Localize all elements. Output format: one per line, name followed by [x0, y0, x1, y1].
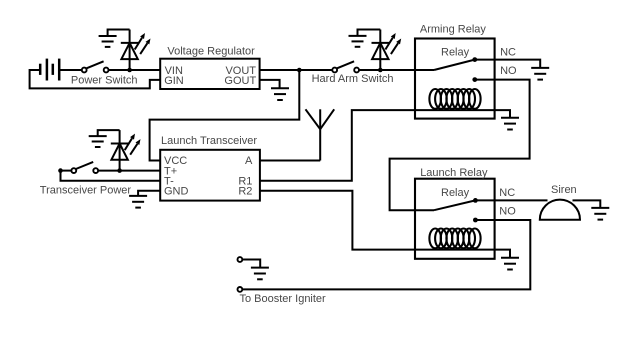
svg-text:GIN: GIN: [164, 75, 184, 87]
node arming LED junction: [378, 68, 383, 73]
wire K2 NC to siren: [475, 199, 547, 201]
svg-text:R2: R2: [238, 186, 252, 198]
svg-text:NO: NO: [500, 65, 517, 77]
antenna AN1: [306, 109, 335, 160]
LED D2 arm indicator: [372, 30, 402, 71]
ground for LED D2: [349, 36, 367, 47]
ground for K2 coil: [501, 258, 519, 270]
wire switch to T+: [98, 170, 160, 172]
siren LS1: [540, 200, 580, 220]
switch S2 hard arm switch: [332, 61, 359, 72]
wire K2 NO to booster igniter terminal: [243, 220, 531, 289]
wire antenna to pin A: [260, 160, 320, 162]
wire K1 NC to ground: [475, 60, 540, 68]
relay K1 armature lever: [434, 60, 475, 70]
wire GOUT to ground: [260, 80, 280, 88]
ground for GOUT: [271, 88, 289, 100]
wire siren to ground: [573, 200, 601, 208]
wire battery negative return loop: [30, 70, 161, 88]
svg-text:GOUT: GOUT: [224, 75, 256, 87]
LED D1 power indicator: [121, 30, 151, 71]
ground for igniter return: [251, 268, 269, 280]
relay K1 coil: [429, 89, 480, 109]
ground for transceiver GND: [129, 196, 147, 208]
svg-text:Siren: Siren: [551, 184, 577, 196]
svg-text:A: A: [245, 155, 253, 167]
svg-text:GND: GND: [164, 186, 189, 198]
svg-text:Relay: Relay: [441, 187, 470, 199]
relay K2 armature lever: [434, 200, 475, 210]
svg-text:Launch Transceiver: Launch Transceiver: [161, 135, 257, 147]
LED D3 transceiver power indicator: [111, 130, 141, 171]
wire power switch to VIN: [109, 69, 161, 71]
node VOUT junction: [297, 68, 302, 73]
ground for siren: [591, 208, 609, 220]
svg-text:Relay: Relay: [441, 46, 470, 58]
relay K1 arming relay box: [415, 39, 495, 119]
terminal igniter ground: [238, 257, 243, 262]
svg-text:Power Switch: Power Switch: [71, 75, 138, 87]
wire LED D2 to ground: [358, 30, 381, 36]
wire LED D1 to ground: [108, 30, 130, 37]
wire LED D3 to ground: [98, 130, 120, 136]
transceiver U2 launch transceiver: [160, 150, 260, 201]
node transceiver switch junction: [58, 168, 63, 173]
wire VOUT to hard arm switch: [260, 69, 332, 71]
svg-text:Arming Relay: Arming Relay: [420, 24, 487, 36]
svg-text:NO: NO: [499, 206, 516, 218]
node transceiver LED junction: [117, 168, 122, 173]
terminal igniter signal: [238, 287, 243, 292]
ground for K1 coil: [501, 118, 519, 130]
switch S3 transceiver power: [71, 162, 98, 173]
svg-text:NC: NC: [499, 187, 515, 199]
wire R2 to relay K2 coil and ground: [260, 191, 510, 258]
wire junction to T-: [61, 171, 161, 181]
wire R1 to relay K1 coil and ground: [260, 110, 510, 181]
relay K2 coil: [429, 229, 480, 249]
wire GND pin to ground: [138, 191, 160, 196]
relay K2 NC contact: [473, 198, 478, 203]
wire junction to transceiver power switch: [61, 170, 72, 172]
svg-text:Transceiver Power: Transceiver Power: [40, 185, 132, 197]
svg-text:To Booster Igniter: To Booster Igniter: [240, 293, 327, 305]
relay K1 NO contact: [472, 77, 477, 82]
wire K1 NO to launch relay common: [390, 80, 530, 211]
switch S1 power switch: [82, 61, 109, 72]
svg-text:Hard Arm Switch: Hard Arm Switch: [312, 73, 394, 85]
node power LED junction: [127, 68, 132, 73]
wire hard arm switch to arming relay: [359, 69, 434, 71]
relay K2 launch relay box: [415, 179, 495, 259]
ground for LED D1: [99, 36, 117, 47]
svg-text:Launch Relay: Launch Relay: [420, 167, 488, 179]
voltage regulator U1: [160, 59, 259, 89]
ground for LED D3: [89, 136, 107, 147]
relay K2 NO contact: [473, 218, 478, 223]
relay K1 NC contact: [472, 57, 477, 62]
wire VOUT branch to VCC: [150, 70, 300, 161]
svg-text:Voltage Regulator: Voltage Regulator: [167, 45, 255, 57]
wire battery to power switch: [59, 69, 82, 71]
ground for K1 NC: [531, 68, 549, 80]
svg-text:NC: NC: [500, 46, 516, 58]
battery B1: [40, 59, 59, 81]
wire igniter ground terminal: [243, 260, 260, 268]
